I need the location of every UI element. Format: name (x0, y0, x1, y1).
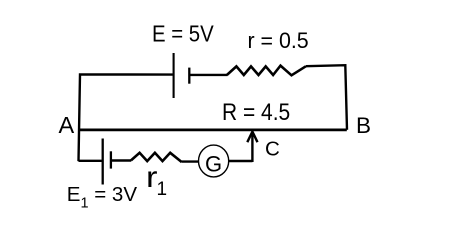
svg-text:C: C (265, 138, 280, 161)
galvanometer G circle (199, 145, 229, 177)
wire: battery E1 to resistor r1 (111, 159, 131, 161)
wire: left vertical to battery E1 (79, 160, 102, 162)
svg-text:E = 5V: E = 5V (152, 21, 214, 47)
svg-text:G: G (205, 152, 222, 177)
svg-text:1: 1 (157, 179, 168, 200)
wire: battery E to resistor r (189, 74, 227, 76)
wire: to top-right corner and right vertical down to B (306, 65, 347, 130)
battery E long plate (positive) (173, 53, 175, 98)
battery E1 long plate (positive) (102, 139, 104, 185)
battery E1 short plate (negative) (110, 151, 112, 168)
svg-text:B: B (356, 113, 371, 138)
arrowhead pointing to node C (247, 132, 257, 143)
resistor r (zigzag) (227, 66, 306, 76)
svg-text:r = 0.5: r = 0.5 (248, 28, 309, 53)
battery E short plate (negative) (188, 68, 190, 84)
wire: top-left corner and left vertical (node A branch) (79, 74, 173, 161)
wire: r1 to galvanometer (182, 160, 199, 162)
svg-text:A: A (59, 112, 75, 138)
wire: galvanometer to sliding contact arrow (229, 160, 253, 162)
svg-text:R = 4.5: R = 4.5 (222, 99, 290, 126)
resistor r1 (zigzag) (131, 153, 182, 162)
svg-text:E1 = 3V: E1 = 3V (67, 183, 138, 212)
arrow shaft (contact C) (251, 135, 253, 163)
middle wire A-B (resistance R) (79, 128, 347, 131)
